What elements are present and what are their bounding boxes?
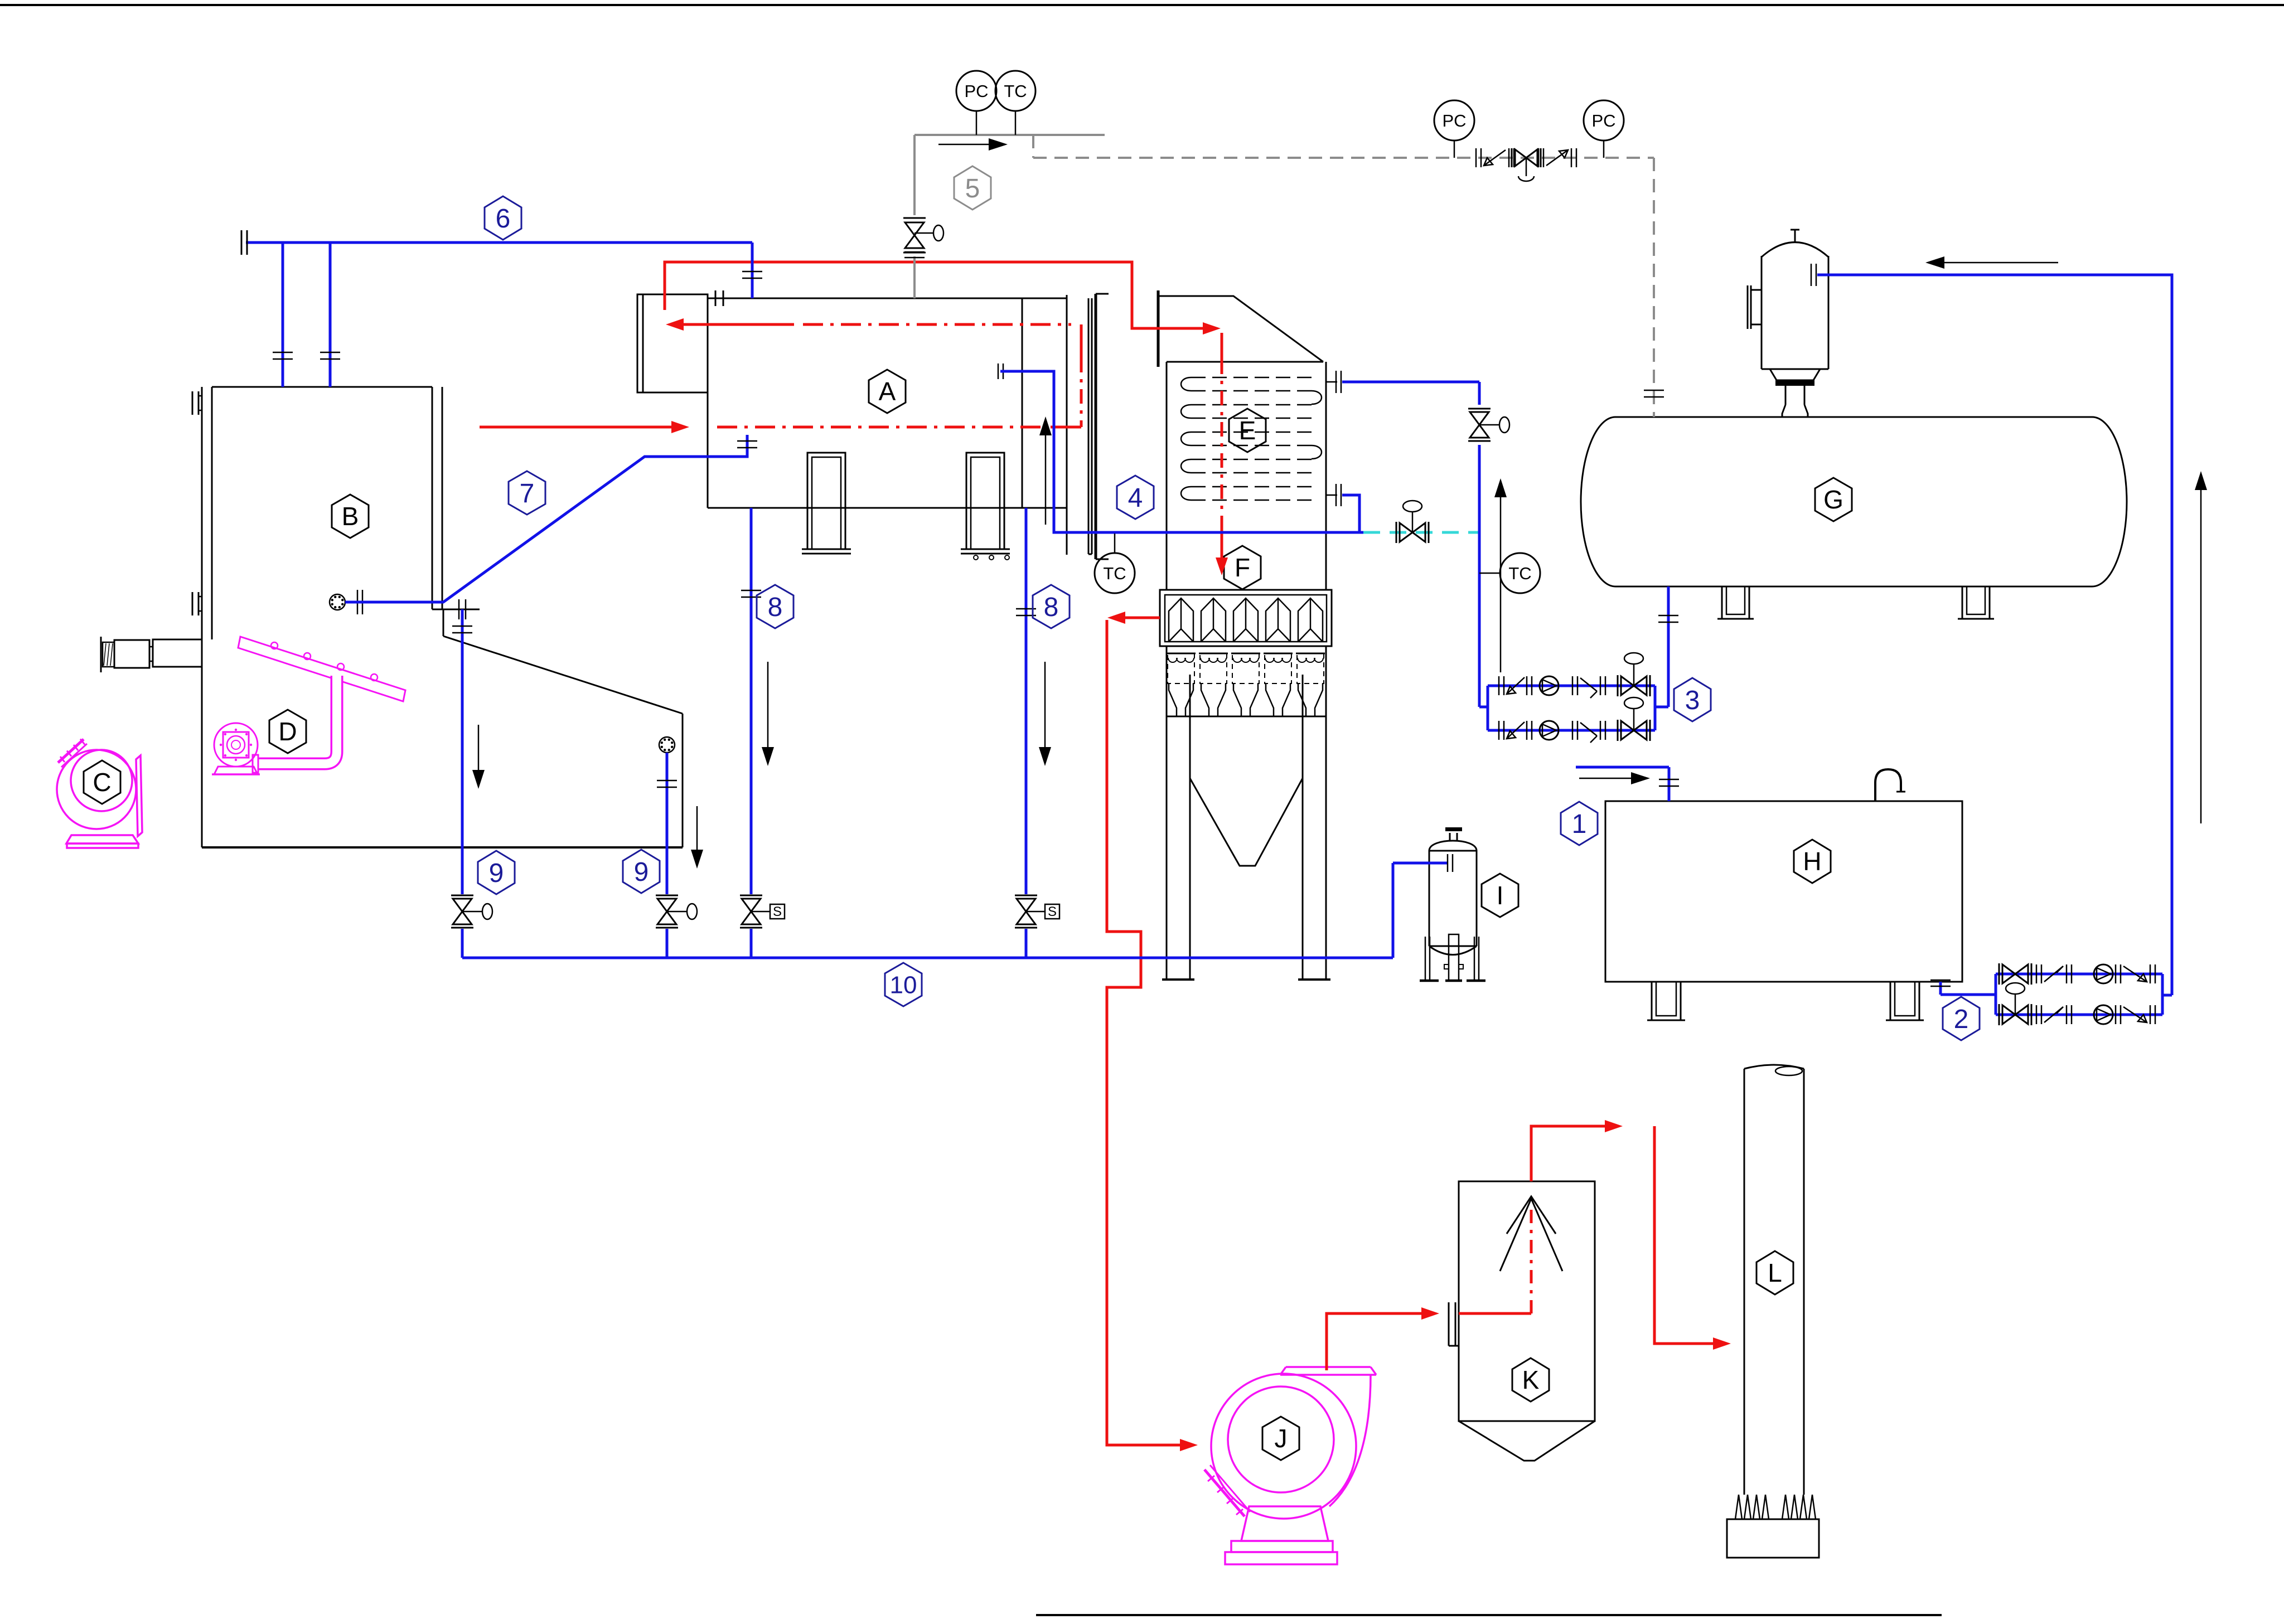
svg-text:4: 4: [1128, 483, 1143, 513]
svg-text:1: 1: [1572, 809, 1587, 839]
svg-text:TC: TC: [1103, 564, 1126, 583]
svg-text:J: J: [1275, 1424, 1288, 1453]
svg-text:G: G: [1823, 485, 1843, 514]
svg-text:TC: TC: [1508, 564, 1531, 583]
svg-text:9: 9: [489, 859, 504, 888]
svg-text:S: S: [1048, 904, 1057, 919]
svg-text:K: K: [1522, 1365, 1540, 1394]
svg-text:A: A: [879, 377, 896, 406]
svg-text:TC: TC: [1004, 81, 1027, 101]
svg-text:C: C: [93, 768, 111, 797]
svg-text:8: 8: [768, 593, 783, 622]
svg-text:2: 2: [1954, 1005, 1969, 1034]
svg-text:10: 10: [890, 971, 917, 998]
svg-text:S: S: [773, 904, 782, 919]
svg-text:6: 6: [496, 204, 511, 234]
svg-text:E: E: [1239, 416, 1256, 445]
svg-text:PC: PC: [1591, 111, 1615, 130]
svg-text:PC: PC: [964, 81, 988, 101]
svg-text:B: B: [342, 502, 359, 531]
svg-text:I: I: [1497, 881, 1504, 910]
svg-text:8: 8: [1044, 593, 1059, 622]
svg-text:PC: PC: [1442, 111, 1466, 130]
svg-text:H: H: [1803, 847, 1821, 876]
svg-text:5: 5: [965, 174, 980, 203]
svg-text:7: 7: [520, 479, 535, 508]
svg-text:F: F: [1235, 553, 1250, 582]
svg-text:D: D: [278, 717, 297, 746]
svg-text:3: 3: [1685, 686, 1700, 715]
svg-text:9: 9: [634, 857, 649, 887]
svg-text:L: L: [1768, 1258, 1782, 1287]
